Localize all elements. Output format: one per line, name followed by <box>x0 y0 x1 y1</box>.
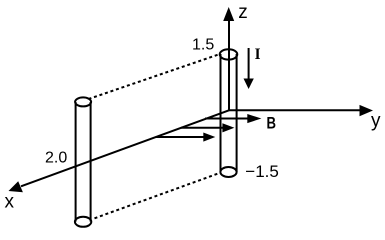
svg-text:I: I <box>255 46 261 63</box>
svg-text:1.5: 1.5 <box>192 37 214 54</box>
y axis <box>229 105 373 116</box>
wire 2 (left cylinder) <box>75 97 91 226</box>
x axis <box>9 110 230 192</box>
svg-text:x: x <box>5 191 15 212</box>
svg-text:y: y <box>371 111 381 132</box>
B field arrow (labeled) <box>205 114 261 123</box>
B field arrow bottom <box>156 133 216 142</box>
current arrow I <box>244 48 254 89</box>
z axis <box>223 7 234 110</box>
svg-text:z: z <box>238 2 248 23</box>
wire 1 (right cylinder, on z axis) <box>220 49 238 177</box>
svg-text:−1.5: −1.5 <box>245 162 279 181</box>
dashed line bottom (connects wire bottoms) <box>95 173 219 218</box>
svg-text:B: B <box>267 114 277 133</box>
B field arrow middle <box>181 123 234 132</box>
dashed line top (connects wire tops) <box>89 54 220 99</box>
svg-text:2.0: 2.0 <box>45 150 67 167</box>
